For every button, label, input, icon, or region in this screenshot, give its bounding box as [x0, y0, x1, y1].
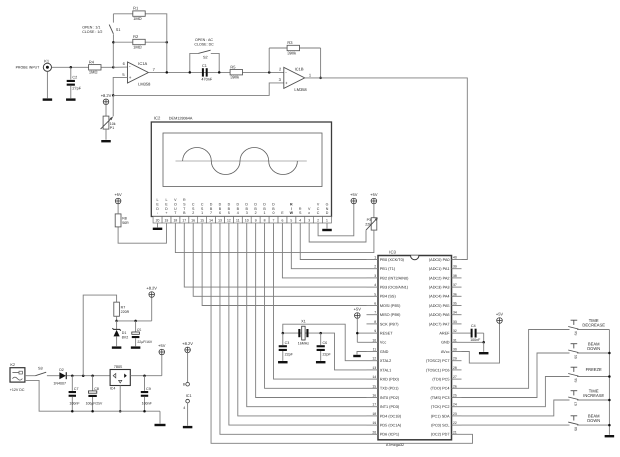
- svg-text:IC3: IC3: [389, 249, 396, 254]
- svg-text:220R: 220R: [121, 310, 130, 314]
- label button S7: [583, 388, 604, 397]
- svg-text:+5V: +5V: [370, 192, 378, 197]
- svg-text:LM358: LM358: [294, 87, 307, 92]
- svg-text:22pF: 22pF: [323, 352, 332, 356]
- wire R1 top line: [113, 14, 166, 42]
- op-amp IC1A LM358: [122, 61, 155, 87]
- svg-text:K2: K2: [10, 363, 15, 367]
- wire pot wiper to Vo: [309, 223, 366, 242]
- pushbutton S7 TIME INCREASE: [568, 391, 578, 406]
- svg-text:K1: K1: [44, 59, 50, 64]
- svg-text:S5: S5: [574, 355, 578, 359]
- svg-text:100nF: 100nF: [69, 402, 80, 406]
- svg-text:TXD (PD1): TXD (PD1): [380, 387, 399, 391]
- wire pot bottom to VOUT: [175, 223, 374, 253]
- svg-text:+12V DC: +12V DC: [10, 388, 25, 392]
- potentiometer P3 22k: [365, 218, 378, 231]
- junction C9: [143, 374, 146, 377]
- svg-text:C1: C1: [202, 64, 207, 68]
- svg-text:X1: X1: [301, 320, 306, 324]
- wire crystal row: [283, 332, 321, 334]
- svg-text:2: 2: [374, 265, 376, 269]
- ground LCD pin1 GND: [322, 223, 332, 231]
- junction rail C7: [71, 410, 74, 413]
- LCD screen inner box: [163, 133, 322, 187]
- svg-text:+5V: +5V: [354, 307, 362, 312]
- svg-text:PB3 (OC0/AIN1): PB3 (OC0/AIN1): [380, 286, 409, 290]
- ground supply rail: [155, 411, 166, 426]
- wire node A to IC1A -input: [113, 66, 127, 68]
- svg-text:22µF/16V: 22µF/16V: [137, 340, 153, 344]
- label button S5: [587, 341, 600, 350]
- capacitor C2 27pF: [67, 67, 82, 98]
- svg-text:GND: GND: [441, 341, 450, 345]
- junction C8: [91, 374, 94, 377]
- wire S3 to D2: [47, 375, 60, 377]
- svg-text:1MΩ: 1MΩ: [133, 16, 142, 21]
- wire button S8 to rail: [577, 424, 609, 426]
- svg-text:19: 19: [372, 421, 376, 425]
- wire pot wiper to bias node: [112, 95, 114, 116]
- wire DB3 to PD3: [247, 223, 367, 407]
- svg-text:(ADC2) PA2: (ADC2) PA2: [429, 276, 450, 280]
- svg-text:4: 4: [374, 283, 376, 287]
- ground K1: [43, 98, 53, 100]
- svg-text:12: 12: [372, 357, 376, 361]
- diode D2 1N4007: [53, 368, 66, 385]
- wire R8 to +5V: [117, 204, 119, 214]
- wire AVcc to +5V: [462, 323, 500, 363]
- svg-text:(ADC5) PA5: (ADC5) PA5: [429, 304, 450, 308]
- svg-text:RESET: RESET: [380, 332, 393, 336]
- capacitor C4 100nF AREF: [462, 324, 484, 343]
- junction R2 left: [112, 41, 115, 44]
- junction rail: [608, 352, 611, 355]
- LCD pin name labels: [156, 198, 328, 215]
- wire IC1B output to PA0: [305, 78, 468, 260]
- node junction after K1: [70, 66, 73, 69]
- wire +8.2V to IC1 pin8: [187, 353, 189, 383]
- svg-text:C9: C9: [146, 387, 151, 391]
- svg-text:3: 3: [374, 274, 376, 278]
- switch S1: [109, 14, 120, 42]
- svg-text:16: 16: [191, 219, 195, 223]
- svg-text:(TDO) PC4: (TDO) PC4: [431, 387, 450, 391]
- ground C6: [316, 361, 326, 363]
- svg-text:C7: C7: [74, 387, 79, 391]
- svg-text:36: 36: [453, 292, 457, 296]
- supply +5V MCU: [354, 307, 362, 319]
- svg-text:IC4: IC4: [110, 387, 116, 391]
- svg-text:S4: S4: [574, 331, 578, 335]
- svg-text:4: 4: [183, 406, 185, 410]
- svg-text:22: 22: [453, 421, 457, 425]
- svg-text:DOWN: DOWN: [587, 346, 600, 351]
- svg-text:R3: R3: [287, 40, 293, 45]
- svg-text:27: 27: [453, 375, 457, 379]
- wire button S5 to rail: [577, 352, 609, 354]
- supply +5V LCD VCC: [350, 192, 358, 204]
- wire +5V to pot top: [373, 204, 375, 218]
- svg-text:12: 12: [227, 219, 231, 223]
- svg-text:INT1 (PD3): INT1 (PD3): [380, 405, 400, 409]
- ground D1: [112, 346, 122, 348]
- svg-text:R5: R5: [230, 64, 236, 69]
- wire R3 right leg: [320, 48, 322, 78]
- wire DB2 to PD2: [256, 223, 367, 398]
- svg-text:S1: S1: [116, 28, 121, 32]
- diode D1 zener 8V2: [112, 321, 128, 346]
- svg-text:CLOSE: DC: CLOSE: DC: [194, 43, 214, 47]
- svg-text:1: 1: [374, 256, 376, 260]
- junction R2 right: [166, 41, 169, 44]
- resistor R8 56R: [115, 214, 129, 227]
- switch S2 bypass: [190, 50, 219, 72]
- wire K1 to node A: [52, 66, 114, 68]
- svg-text:GND: GND: [326, 203, 329, 216]
- svg-text:(TOSC1) PC6: (TOSC1) PC6: [426, 368, 450, 372]
- svg-text:11: 11: [373, 348, 377, 352]
- supply +8.2V rail: [146, 286, 157, 298]
- svg-text:7: 7: [374, 311, 376, 315]
- svg-text:+5V: +5V: [158, 343, 166, 348]
- wire 7805 output: [130, 375, 162, 377]
- svg-text:S7: S7: [574, 402, 578, 406]
- label OPEN/CLOSE 1:1: [82, 26, 102, 35]
- svg-text:32: 32: [453, 329, 457, 333]
- svg-text:IC2: IC2: [154, 115, 161, 120]
- svg-text:PD6 (ICP1): PD6 (ICP1): [380, 433, 400, 437]
- svg-text:28: 28: [453, 366, 457, 370]
- svg-text:35: 35: [453, 302, 457, 306]
- svg-text:13: 13: [218, 219, 222, 223]
- svg-text:13: 13: [372, 366, 376, 370]
- svg-text:10: 10: [372, 338, 376, 342]
- svg-text:D2: D2: [59, 368, 64, 372]
- svg-text:1MΩ: 1MΩ: [133, 44, 142, 49]
- sine waveform: [183, 147, 298, 174]
- svg-text:20: 20: [372, 430, 376, 434]
- svg-text:1: 1: [326, 219, 328, 223]
- wire DB1 to PD1: [265, 223, 367, 388]
- svg-text:9: 9: [255, 219, 257, 223]
- svg-text:IC1B: IC1B: [295, 66, 304, 71]
- junction IC1B -input: [268, 71, 271, 74]
- svg-text:R7: R7: [121, 305, 126, 309]
- ground C5: [131, 346, 141, 348]
- wire DB6 to PD6: [220, 223, 367, 434]
- svg-text:AREF: AREF: [439, 332, 450, 336]
- junction bias node: [112, 94, 115, 97]
- connector K2 +12V DC: [10, 363, 25, 392]
- IC3 ATmega32 body: [378, 249, 452, 446]
- svg-text:SCK (PB7): SCK (PB7): [380, 322, 399, 326]
- junction 7805 gnd rail: [119, 410, 122, 413]
- svg-text:LM358: LM358: [138, 82, 151, 87]
- svg-text:37: 37: [453, 283, 457, 287]
- label OPEN/CLOSE AC DC: [194, 38, 214, 47]
- svg-text:(TMS) PC3: (TMS) PC3: [431, 396, 450, 400]
- wire +5V to RESET and Vcc: [357, 318, 366, 342]
- svg-text:AVcc: AVcc: [441, 350, 450, 354]
- junction R7 branch: [82, 374, 85, 377]
- IC1 power pin 8: [183, 382, 190, 386]
- svg-text:S3: S3: [38, 367, 43, 371]
- svg-text:D1: D1: [122, 331, 127, 335]
- wire D2 to regulator: [67, 375, 110, 377]
- svg-text:(PC1) SDA: (PC1) SDA: [431, 414, 450, 418]
- svg-text:+8.2V: +8.2V: [182, 341, 193, 346]
- svg-text:GND: GND: [380, 350, 389, 354]
- wire LED+ to R8: [118, 223, 166, 243]
- wire E to PB2: [282, 223, 366, 278]
- svg-text:18: 18: [372, 412, 376, 416]
- supply +8.2V bias: [101, 93, 112, 105]
- svg-text:40: 40: [453, 256, 457, 260]
- svg-text:(ADC4) PA4: (ADC4) PA4: [429, 295, 450, 299]
- svg-text:8: 8: [264, 219, 266, 223]
- svg-text:20: 20: [156, 219, 160, 223]
- svg-text:390k: 390k: [230, 75, 239, 80]
- label button S4: [582, 318, 605, 327]
- capacitor C9 100nF: [141, 376, 153, 412]
- svg-text:7805: 7805: [114, 365, 122, 369]
- wire R2 line: [113, 41, 166, 43]
- svg-text:XTAL1: XTAL1: [380, 368, 391, 372]
- switch S3: [35, 367, 46, 376]
- label IC1 power: [186, 394, 192, 398]
- junction rail: [608, 424, 611, 427]
- svg-text:PB2 (INT2/AIN0): PB2 (INT2/AIN0): [380, 276, 409, 280]
- resistor R2 1MΩ: [133, 34, 145, 49]
- junction crystal right: [319, 332, 322, 335]
- op-amp IC1B LM358: [279, 66, 312, 92]
- svg-text:38: 38: [453, 274, 457, 278]
- wire CS2 to PB4: [193, 223, 366, 296]
- supply +5V regulator: [158, 343, 166, 355]
- svg-text:MOSI (PB5): MOSI (PB5): [380, 304, 401, 308]
- svg-text:CLOSE : 1/2: CLOSE : 1/2: [82, 30, 102, 34]
- junction rail C8: [91, 410, 94, 413]
- resistor R5 390k: [230, 64, 242, 79]
- potentiometer P1 10k: [101, 116, 116, 140]
- ground buttons rail: [605, 435, 615, 437]
- svg-text:23: 23: [453, 412, 457, 416]
- svg-text:26: 26: [453, 384, 457, 388]
- svg-text:INT0 (PD2): INT0 (PD2): [380, 396, 400, 400]
- svg-text:17: 17: [182, 219, 186, 223]
- svg-text:4: 4: [299, 219, 301, 223]
- wire IC1 pin4 to ground: [187, 403, 189, 426]
- wire GND pin31: [462, 341, 484, 343]
- wire DB0 to PD0: [273, 223, 366, 379]
- junction crystal left: [282, 332, 285, 335]
- svg-text:C3: C3: [285, 341, 290, 345]
- junction feedback R1R2: [166, 71, 169, 74]
- svg-text:(ADC6) PA6: (ADC6) PA6: [429, 313, 450, 317]
- wire PC2 to button S6: [462, 377, 570, 407]
- svg-text:C6: C6: [323, 341, 328, 345]
- wire PC4 to button S4: [462, 330, 570, 389]
- svg-text:56R: 56R: [122, 221, 129, 225]
- svg-text:Vcc: Vcc: [380, 341, 386, 345]
- svg-text:PD4 (OC1B): PD4 (OC1B): [380, 414, 402, 418]
- resistor R1 1MΩ: [133, 6, 145, 21]
- svg-text:DOWN: DOWN: [587, 418, 600, 423]
- svg-text:XTAL2: XTAL2: [380, 359, 391, 363]
- resistor R4 1MΩ: [89, 59, 101, 74]
- svg-text:C8: C8: [94, 387, 99, 391]
- svg-text:17: 17: [372, 403, 376, 407]
- svg-text:DEM128064A: DEM128064A: [169, 116, 193, 120]
- label button S6: [586, 367, 602, 372]
- svg-text:8: 8: [183, 382, 185, 386]
- wire K1 to ground: [46, 72, 48, 99]
- svg-text:31: 31: [453, 338, 457, 342]
- svg-text:MISO (PB6): MISO (PB6): [380, 313, 401, 317]
- wire DB4 to PD4: [238, 223, 367, 416]
- svg-text:(TOSC2) PC7: (TOSC2) PC7: [426, 359, 450, 363]
- svg-text:100µF/25V: 100µF/25V: [86, 402, 103, 406]
- capacitor C1 470nF: [201, 64, 212, 81]
- svg-text:(ADC0) PA0: (ADC0) PA0: [429, 258, 450, 262]
- junction IC1B output: [319, 77, 322, 80]
- svg-text:DECREASE: DECREASE: [582, 322, 605, 327]
- svg-text:(OC2) PD7: (OC2) PD7: [431, 433, 450, 437]
- supply +5V contrast pot: [370, 192, 378, 204]
- ground LCD pin20 LED-: [153, 223, 163, 230]
- svg-text:15: 15: [200, 219, 204, 223]
- junction RESET: [356, 332, 359, 335]
- capacitor C7 100nF: [69, 376, 81, 412]
- svg-text:PB4 (SS): PB4 (SS): [380, 295, 397, 299]
- crystal X1 16MHz: [298, 320, 310, 346]
- svg-text:PD5 (OC1A): PD5 (OC1A): [380, 424, 402, 428]
- svg-text:15: 15: [372, 384, 376, 388]
- svg-text:16MHz: 16MHz: [298, 342, 310, 346]
- svg-text:OPEN : 1/1: OPEN : 1/1: [82, 26, 100, 30]
- wire output to +5V: [161, 355, 163, 376]
- svg-text:P1: P1: [110, 126, 114, 130]
- svg-text:(TCK) PC2: (TCK) PC2: [431, 405, 450, 409]
- svg-text:18: 18: [173, 219, 177, 223]
- wire XTAL2 to crystal: [283, 324, 367, 361]
- ground C3: [278, 361, 288, 363]
- capacitor C5 22uF: [132, 321, 153, 346]
- junction rail C9: [143, 410, 146, 413]
- wire R3 left leg: [268, 48, 270, 72]
- capacitor C3 22pF: [279, 333, 294, 361]
- svg-text:16: 16: [372, 394, 376, 398]
- wire RSTB to PB3: [184, 223, 366, 287]
- wire IC1A output line: [148, 71, 283, 73]
- svg-text:29: 29: [453, 357, 457, 361]
- LCD pin boxes row: [153, 217, 331, 224]
- wire zener to +8.2V: [151, 297, 153, 321]
- capacitor C8 100uF: [86, 376, 103, 412]
- svg-text:1MΩ: 1MΩ: [89, 70, 98, 75]
- svg-text:390k: 390k: [287, 50, 296, 55]
- resistor R7 220R: [114, 302, 130, 316]
- svg-text:21: 21: [453, 430, 457, 434]
- svg-text:100nF: 100nF: [142, 402, 153, 406]
- wire bias line to IC1B +input: [113, 83, 284, 96]
- svg-text:IC1: IC1: [186, 394, 192, 398]
- wire PC0 to button S8: [462, 424, 570, 426]
- svg-text:33: 33: [453, 320, 457, 324]
- pushbutton S5 BEAM DOWN: [568, 344, 578, 359]
- junction rail: [608, 375, 611, 378]
- wire DB7 to PD7: [211, 223, 472, 443]
- svg-text:8V2: 8V2: [122, 336, 128, 340]
- wire PC3 to button S5: [462, 353, 570, 398]
- svg-text:R1: R1: [133, 6, 139, 11]
- capacitor C6 22pF: [317, 333, 332, 361]
- svg-text:22pF: 22pF: [285, 352, 294, 356]
- ground P1: [101, 140, 111, 142]
- wire buttons common rail: [608, 330, 610, 435]
- svg-text:30: 30: [453, 348, 457, 352]
- ground MCU GND pin11: [353, 352, 366, 358]
- svg-text:PB0 (XCK/T0): PB0 (XCK/T0): [380, 258, 405, 262]
- svg-text:S2: S2: [203, 56, 208, 60]
- IC1 power pin 4: [183, 399, 189, 410]
- junction rail: [608, 399, 611, 402]
- ground AREF C4: [479, 342, 489, 354]
- svg-text:PROBE INPUT: PROBE INPUT: [16, 66, 41, 70]
- sine waveform centerline: [176, 160, 307, 162]
- supply +8.2V IC1: [182, 341, 193, 353]
- svg-text:S8: S8: [574, 427, 578, 431]
- svg-text:24: 24: [453, 403, 457, 407]
- pushbutton S8 BEAM DOWN: [568, 416, 578, 431]
- wire zener node right: [117, 320, 152, 322]
- svg-text:6: 6: [374, 302, 376, 306]
- wire RS to PB0: [300, 223, 366, 260]
- junction S2 left: [189, 71, 192, 74]
- wire 7805 gnd: [119, 386, 121, 412]
- svg-text:19: 19: [165, 219, 169, 223]
- wire CS1 to PB5: [202, 223, 366, 306]
- svg-text:+5V: +5V: [350, 192, 358, 197]
- node A junction: [112, 66, 115, 69]
- wire button S7 to rail: [577, 399, 609, 401]
- svg-text:+5V: +5V: [496, 312, 504, 317]
- svg-text:(TDI) PC5: (TDI) PC5: [432, 378, 449, 382]
- svg-text:9: 9: [374, 329, 376, 333]
- svg-text:8: 8: [374, 320, 376, 324]
- svg-text:+: +: [129, 75, 132, 80]
- junction zener node: [115, 320, 118, 323]
- svg-text:S6: S6: [574, 378, 578, 382]
- svg-text:R2: R2: [133, 34, 139, 39]
- svg-text:INCREASE: INCREASE: [583, 393, 604, 398]
- connector K1 PROBE INPUT: [16, 59, 52, 72]
- IC3 pin stubs and numbers: [367, 256, 462, 435]
- svg-text:470nF: 470nF: [201, 78, 212, 82]
- wire VCC to +5V: [318, 204, 354, 236]
- LCD module IC2 outline: [151, 115, 331, 216]
- svg-text:RXD (PD0): RXD (PD0): [380, 378, 400, 382]
- ground IC1: [183, 426, 193, 428]
- svg-text:C5: C5: [137, 328, 141, 332]
- wire R/W to PB1: [291, 223, 366, 269]
- svg-text:7: 7: [273, 219, 275, 223]
- junction C7: [71, 374, 74, 377]
- svg-text:+5V: +5V: [114, 192, 122, 197]
- svg-text:C2: C2: [72, 75, 77, 79]
- svg-text:+8.2V: +8.2V: [146, 286, 157, 291]
